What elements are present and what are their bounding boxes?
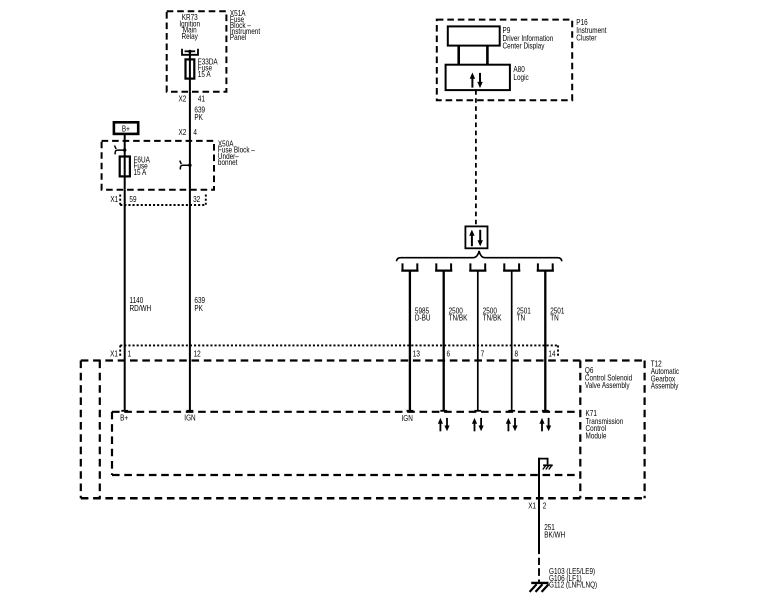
wire 5985 D-BU [409,271,411,411]
logic module A80 box [446,65,510,90]
label P16 Instrument Cluster [576,17,606,42]
label A80 Logic [513,64,529,82]
svg-text:14: 14 [548,349,555,359]
chassis ground symbol G103/G106/G112 [530,583,549,592]
connector cup terminal wire 2501 TN (a) [503,263,520,270]
svg-text:X1: X1 [110,349,118,359]
svg-text:Panel: Panel [230,32,247,42]
svg-text:TN: TN [517,313,526,323]
svg-text:Logic: Logic [513,72,529,82]
svg-text:6: 6 [447,349,451,359]
terminal hook on B+ wire [115,146,127,155]
svg-text:13: 13 [413,349,420,359]
transmission control module K71 (dashed box) [112,412,580,475]
wire 1140 RD/WH (X50A to TCM B+) [124,190,126,411]
svg-text:IGN: IGN [402,413,413,423]
svg-text:Module: Module [586,431,607,441]
svg-text:PK: PK [194,303,203,313]
svg-text:4: 4 [193,127,197,137]
wire 2501 TN (a) [511,271,513,411]
label T12 Automatic Gearbox Assembly [651,359,680,391]
svg-text:TN/BK: TN/BK [449,313,468,323]
label 2501 TN [517,306,531,323]
ground wire 251 BK/WH [538,458,540,554]
svg-text:8: 8 [515,349,519,359]
wire termination IGN at TCM (pin 13) [402,411,414,423]
svg-text:Assembly: Assembly [651,381,679,391]
label 639 PK (lower) [194,295,205,313]
solenoid driver arrows at pin wire 5 [539,411,551,432]
label Q6 Control Solenoid Valve Assembly [585,365,632,390]
svg-text:G112 (LNF/LNQ): G112 (LNF/LNQ) [549,580,597,590]
svg-text:RD/WH: RD/WH [130,303,152,313]
label F33DA Fuse 15 A [198,57,218,80]
label 251 BK/WH [544,522,565,540]
svg-text:B+: B+ [122,124,130,134]
bidirectional arrows in data link box [469,230,483,247]
svg-text:bonnet: bonnet [218,157,238,167]
label 1140 RD/WH [130,295,152,313]
label K71 Transmission Control Module [586,408,624,441]
serial data dashed wire [475,90,477,226]
label 639 PK [194,105,205,123]
dashed continuation of ground wire [538,558,540,583]
bus splice brace [396,251,562,261]
svg-text:2: 2 [543,501,547,511]
svg-text:BK/WH: BK/WH [544,530,565,540]
svg-text:X2: X2 [178,127,186,137]
label 2500 TN/BK [449,306,468,323]
wire from B+ into fuse block X50A [124,134,126,190]
svg-text:7: 7 [481,349,485,359]
label 2500 TN/BK [483,306,502,323]
wire 639 PK inside X50A [189,141,191,190]
solenoid driver arrows at pin wire 4 [506,411,518,432]
label P9 Driver Information Center Display [503,25,554,50]
display P9 box [448,26,500,45]
wire 2500 TN/BK (a) [443,271,445,411]
svg-text:Center Display: Center Display [503,41,545,51]
bidirectional arrows in A80 [470,73,483,89]
svg-text:X2: X2 [178,94,186,104]
label X50A Fuse Block - Underbonnet [218,139,256,168]
connector X1 pin 2 at gearbox boundary [528,501,546,511]
solenoid driver arrows at pin wire 2 [438,411,450,432]
svg-text:Cluster: Cluster [576,33,597,43]
fuse F33DA [186,59,195,78]
svg-text:15 A: 15 A [134,167,147,177]
fuse block X51A (dashed outline) [167,11,227,92]
label F6UA Fuse 15 A [134,155,150,178]
wire 2500 TN/BK (b) [477,271,479,411]
label 5985 D-BU [415,306,431,323]
connector cup terminal wire 2501 TN (b) [537,263,554,270]
connector cup terminal wire 2500 TN/BK (a) [435,263,452,270]
wire 2501 TN (b) [544,271,546,411]
connector X2 pin 4 [178,127,196,137]
wire 639 PK inside X51A (relay to fuse to X2:41) [189,51,191,92]
svg-text:Valve Assembly: Valve Assembly [585,380,630,390]
connector X2 pin 41 [178,94,205,104]
svg-text:Relay: Relay [182,31,199,41]
relay KR73 label [179,12,200,41]
fuse block X50A (dashed outline) [102,141,214,190]
serial data link box [465,226,487,248]
relay KR73 contact symbol [182,49,198,55]
wire termination B+ at TCM [120,411,128,423]
svg-text:B+: B+ [120,413,128,423]
svg-text:32: 32 [193,194,200,204]
connector cup terminal wire 2500 TN/BK (b) [469,263,486,270]
svg-text:X1: X1 [528,501,536,511]
svg-text:TN: TN [550,313,559,323]
battery feed B+ box [114,122,138,134]
automatic gearbox assembly T12 (outer dashed box) [81,361,645,499]
bus links P9 to A80 [459,46,488,65]
labels G103 (LE5/LE9), G106 (LF1), G112 (LNF/LNQ) [549,566,597,589]
connector cup terminal wire 5985 D-BU [401,263,418,270]
solenoid driver arrows at pin wire 3 [472,411,484,432]
svg-text:1: 1 [128,349,132,359]
svg-text:15 A: 15 A [198,69,211,79]
svg-text:PK: PK [194,112,203,122]
connector X1 of TCM (dotted line, label, pin numbers) [110,345,558,358]
label X51A Fuse Block - Instrument Panel [230,8,260,42]
control solenoid valve assembly Q6 (dashed box sides) [100,361,581,499]
internal ground of TCM (chassis ground symbol) [539,459,553,470]
svg-text:12: 12 [194,349,201,359]
svg-text:IGN: IGN [184,413,195,423]
fuse F6UA [120,157,130,177]
label 2501 TN [550,306,564,323]
connector X1 of X50A (dotted line, label, pins 59 and 32) [110,194,205,205]
svg-text:X1: X1 [110,194,118,204]
wire 639 PK (X2:41 to X2:4) [189,92,191,141]
wire 639 PK (X50A to TCM IGN) [189,190,191,411]
svg-text:D-BU: D-BU [415,313,431,323]
svg-text:TN/BK: TN/BK [483,313,502,323]
wire termination IGN at TCM (pin 12) [184,411,195,423]
instrument cluster P16 (dashed outline) [437,20,572,101]
svg-text:59: 59 [129,194,136,204]
terminal hook on 639 PK wire [180,161,192,170]
svg-text:41: 41 [198,94,205,104]
